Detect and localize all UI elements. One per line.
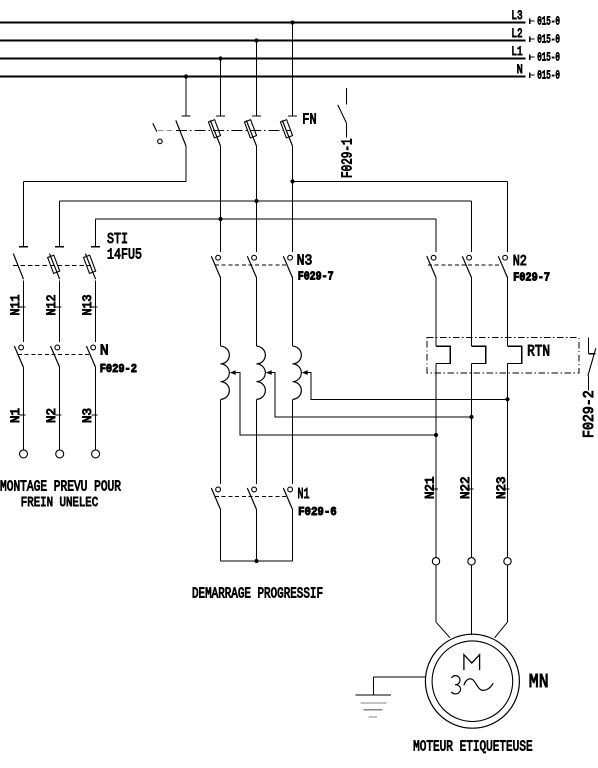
coil tap arrow 3 xyxy=(302,370,308,375)
fuse pole 4 T-bar xyxy=(288,115,297,117)
wire N2 pole3 to RTN xyxy=(507,278,509,347)
F029-2 contact terminal (right) xyxy=(588,337,595,353)
contactor N contact pole1 xyxy=(19,345,24,350)
tick N13 xyxy=(92,306,98,308)
fuse 14FU5 pole3 body xyxy=(84,255,96,273)
motor digit 3 xyxy=(451,676,460,694)
STI disconnect pole3 T-bar xyxy=(91,246,100,248)
node rail L3 xyxy=(290,179,294,183)
STI linkage dashes xyxy=(13,265,91,267)
node bus centre xyxy=(254,559,258,563)
wire into coil 1 xyxy=(220,278,222,347)
F029-2 contact blade (right) xyxy=(588,348,596,375)
STI disconnect pole1 T-bar xyxy=(19,246,28,248)
tick N11 xyxy=(20,306,26,308)
wire N1 pole1 to bus xyxy=(220,509,222,561)
power line L3 xyxy=(0,22,526,24)
wire N1 pole3 to bus xyxy=(292,509,294,561)
RTN thermal element 1 xyxy=(436,346,450,363)
STI disconnect pole3 blade xyxy=(85,254,95,280)
contactor N1 contact pole3 xyxy=(288,487,293,492)
fuse pole 4 blade xyxy=(282,120,292,146)
wire N2 xyxy=(59,367,61,450)
wire right col1 drop xyxy=(435,219,437,252)
fuse pole 3 blade xyxy=(246,120,256,146)
tick N2 xyxy=(56,414,62,416)
main switch linkage dash-dot xyxy=(176,130,291,132)
terminal N22 xyxy=(468,558,475,565)
wire pole3 down xyxy=(256,146,258,252)
wire pole2 down xyxy=(220,146,222,252)
contactor N2 contact pole1 xyxy=(431,255,436,260)
motor lead right slant xyxy=(495,622,508,638)
coil (autotransformer) 2 xyxy=(257,346,266,399)
wire left col1 drop xyxy=(23,181,25,246)
terminal N3 xyxy=(92,450,100,458)
wire N1 pole2 to bus xyxy=(256,509,258,561)
wire into coil 3 xyxy=(292,278,294,347)
wire N2 pole2 to RTN xyxy=(471,278,473,347)
wire left col2 drop xyxy=(59,201,61,247)
svg-text:MN: MN xyxy=(529,671,549,693)
node rail L2 xyxy=(254,199,258,203)
RTN thermal element 2 xyxy=(472,346,486,363)
contactor N contact pole2 xyxy=(55,345,60,350)
RTN thermal element 3 xyxy=(508,346,522,363)
svg-text:F029-7: F029-7 xyxy=(513,270,550,284)
contactor N1 contact pole1 xyxy=(216,487,221,492)
tick N3 xyxy=(92,414,98,416)
contactor N linkage dashes xyxy=(18,353,89,355)
fuse pole 2 blade xyxy=(210,120,220,146)
ground bar 3 xyxy=(363,709,382,711)
F029-1 contact blade xyxy=(338,105,347,123)
fuse 14FU5 pole2 body xyxy=(48,255,60,273)
svg-text:RTN: RTN xyxy=(527,343,550,361)
node on line at x=220.5 xyxy=(218,56,222,60)
wire coil2 to N1 contact xyxy=(256,399,258,484)
wire N3 xyxy=(95,367,97,450)
STI disconnect pole2 blade xyxy=(50,254,60,280)
node tap 3 junction xyxy=(505,397,509,401)
coil (autotransformer) 3 xyxy=(293,346,302,399)
svg-text:L2: L2 xyxy=(511,26,522,41)
svg-text:N: N xyxy=(100,342,109,359)
ground wire xyxy=(373,677,426,695)
svg-text:N3: N3 xyxy=(297,252,313,269)
svg-text:FN: FN xyxy=(302,112,316,129)
svg-text:N1: N1 xyxy=(298,486,310,503)
wire RTN pole2 down xyxy=(471,364,473,558)
sheet tick L2 xyxy=(530,36,535,42)
fuse pole 3 body xyxy=(244,120,256,138)
contactor N3 contact pole3 xyxy=(288,255,293,260)
coil (autotransformer) 1 xyxy=(221,346,230,399)
motor lead left slant xyxy=(436,622,450,638)
sheet tick L1 xyxy=(530,54,535,60)
node rail L1 xyxy=(218,217,222,221)
F029-1 contact lower terminal xyxy=(345,123,347,137)
tick N1 xyxy=(20,414,26,416)
main switch handle circle xyxy=(158,139,163,144)
svg-text:DEMARRAGE PROGRESSIF: DEMARRAGE PROGRESSIF xyxy=(192,586,323,603)
rail L3 to right xyxy=(293,180,508,182)
svg-text:015-0: 015-0 xyxy=(537,15,560,28)
sheet tick L3 xyxy=(530,18,535,24)
main switch FN pole1 blade xyxy=(176,120,186,146)
motor letter M xyxy=(464,655,480,671)
wire RTN pole3 down xyxy=(507,364,509,558)
wire pole1 down xyxy=(185,146,187,181)
node tap 2 junction xyxy=(469,415,473,419)
power line L1 xyxy=(0,58,526,60)
ground bar 2 xyxy=(361,702,387,704)
svg-text:MOTEUR ETIQUETEUSE: MOTEUR ETIQUETEUSE xyxy=(413,739,532,756)
STI disconnect pole1 blade xyxy=(13,254,23,280)
svg-text:015-0: 015-0 xyxy=(537,69,560,82)
svg-text:N23: N23 xyxy=(495,477,509,500)
terminal N23 xyxy=(504,558,511,565)
motor tilde ~ xyxy=(464,679,493,691)
wire N1 xyxy=(23,367,25,450)
bus shorting bar xyxy=(221,560,293,562)
svg-text:N3: N3 xyxy=(81,408,95,423)
coil tap arrow 1 xyxy=(230,370,236,375)
main switch handle dashes xyxy=(158,130,175,132)
wire N12 xyxy=(59,280,61,342)
coil tap wire 1 xyxy=(235,373,436,435)
svg-text:F029-2: F029-2 xyxy=(581,390,598,438)
coil tap wire 2 xyxy=(271,373,472,417)
contactor N3 contact pole2 xyxy=(252,255,257,260)
contactor N3 linkage dashes xyxy=(215,264,286,266)
svg-text:N: N xyxy=(517,62,523,77)
STI disconnect pole2 T-bar xyxy=(55,246,64,248)
motor MN inner circle xyxy=(432,641,513,722)
node on line at x=292.5 xyxy=(290,20,294,24)
svg-text:L3: L3 xyxy=(511,8,522,23)
node tap 1 junction xyxy=(434,433,438,437)
power line N xyxy=(0,76,526,78)
wire coil3 to N1 contact xyxy=(292,399,294,484)
tick N22 xyxy=(468,488,474,490)
ground bar 1 xyxy=(356,694,391,696)
svg-text:N11: N11 xyxy=(9,295,23,316)
motor MN outer circle xyxy=(425,634,519,728)
coil tap wire 3 xyxy=(307,373,508,400)
svg-text:FREIN UNELEC: FREIN UNELEC xyxy=(21,495,98,511)
wire right col2 drop xyxy=(471,201,473,252)
contactor N2 linkage dashes xyxy=(428,264,501,266)
svg-text:N2: N2 xyxy=(45,408,59,423)
coil tap arrow 2 xyxy=(266,370,272,375)
rail L1 across xyxy=(96,218,436,220)
svg-text:F029-1: F029-1 xyxy=(339,138,356,178)
tick N23 xyxy=(504,488,510,490)
svg-text:N13: N13 xyxy=(81,295,95,316)
svg-text:L1: L1 xyxy=(511,44,522,59)
fuse pole 2 body xyxy=(208,120,220,138)
motor lead right wire xyxy=(507,565,509,622)
wire coil1 to N1 contact xyxy=(220,399,222,484)
F029-2 contact lower terminal (right) xyxy=(587,376,589,391)
fuse pole 2 T-bar xyxy=(216,115,225,117)
contactor N3 contact pole1 xyxy=(216,255,221,260)
svg-text:14FU5: 14FU5 xyxy=(107,246,142,263)
wire drop xyxy=(256,41,258,116)
wire pole4 down xyxy=(292,146,294,252)
contactor N2 contact pole2 xyxy=(467,255,472,260)
wire N11 xyxy=(23,280,25,342)
svg-text:F029-2: F029-2 xyxy=(100,362,137,376)
terminal N1 xyxy=(20,450,28,458)
wire N13 xyxy=(95,280,97,342)
sheet tick N xyxy=(530,72,535,78)
svg-text:015-0: 015-0 xyxy=(537,33,560,46)
terminal N2 xyxy=(56,450,64,458)
svg-text:015-0: 015-0 xyxy=(537,51,560,64)
wire into coil 2 xyxy=(256,278,258,347)
main switch handle stroke xyxy=(153,123,157,132)
wire left col3 drop xyxy=(95,219,97,247)
F029-1 contact upper terminal xyxy=(345,88,347,104)
node on line at x=186 xyxy=(184,74,188,78)
motor lead middle xyxy=(471,565,473,635)
main switch FN pole1 T-bar xyxy=(182,115,191,117)
svg-text:N22: N22 xyxy=(459,477,473,500)
wire drop xyxy=(185,77,187,116)
svg-text:N1: N1 xyxy=(9,408,23,423)
svg-text:F029-7: F029-7 xyxy=(298,270,334,284)
svg-text:N21: N21 xyxy=(424,477,438,500)
svg-text:MONTAGE PREVU POUR: MONTAGE PREVU POUR xyxy=(0,478,121,495)
wire N2 pole1 to RTN xyxy=(435,278,437,347)
contactor N1 linkage dashes xyxy=(215,496,286,498)
wire right col3 drop xyxy=(507,181,509,252)
rail L2 across xyxy=(60,200,472,202)
terminal N21 xyxy=(432,558,439,565)
contactor N2 contact pole3 xyxy=(503,255,508,260)
ground bar 4 xyxy=(368,716,377,718)
svg-text:F029-6: F029-6 xyxy=(298,505,337,519)
rail N (left segment) xyxy=(24,180,187,182)
tick N12 xyxy=(56,306,62,308)
svg-text:N12: N12 xyxy=(45,295,59,316)
power line L2 xyxy=(0,40,526,42)
svg-text:N2: N2 xyxy=(513,253,527,270)
RTN relay boundary box xyxy=(427,338,579,373)
wire drop xyxy=(220,59,222,116)
motor lead left wire xyxy=(435,565,437,622)
node on line at x=256.5 xyxy=(254,38,258,42)
contactor N contact pole3 xyxy=(91,345,96,350)
contactor N1 contact pole2 xyxy=(252,487,257,492)
fuse pole 3 T-bar xyxy=(252,115,261,117)
wire drop xyxy=(292,23,294,116)
tick N21 xyxy=(432,488,438,490)
fuse pole 4 body xyxy=(280,120,292,138)
wire RTN pole1 down xyxy=(435,364,437,558)
